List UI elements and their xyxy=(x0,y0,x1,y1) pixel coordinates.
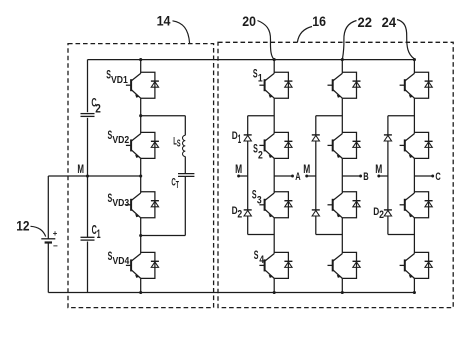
wire bottom bus xyxy=(48,292,415,294)
label D2 (leg A) xyxy=(232,205,243,221)
svg-text:S: S xyxy=(253,67,258,81)
wire left rail upper xyxy=(87,60,89,113)
svg-text:2: 2 xyxy=(258,149,263,161)
wire M terminal (leg A) xyxy=(239,175,248,177)
label S3 xyxy=(252,188,262,207)
svg-text:S: S xyxy=(252,188,257,202)
svg-text:S: S xyxy=(254,248,259,262)
svg-text:S: S xyxy=(177,139,181,150)
svg-text:M: M xyxy=(235,162,242,176)
transistor S4 xyxy=(259,254,274,279)
wire leg A segment 4 xyxy=(273,218,275,254)
node M on rail xyxy=(86,174,89,177)
label D1 xyxy=(232,130,242,146)
transistor switch 3 (leg C) xyxy=(400,193,415,218)
leader from 12 to battery xyxy=(31,226,46,236)
node bottom of leg C xyxy=(413,291,416,294)
svg-text:1: 1 xyxy=(258,73,263,85)
clamp diode D2 (leg B) xyxy=(312,209,320,211)
transistor switch 4 (leg B) xyxy=(328,254,343,279)
svg-text:1: 1 xyxy=(238,132,242,146)
transistor SVD1 xyxy=(126,73,141,98)
label C2 xyxy=(91,96,101,115)
wire CT bottom xyxy=(184,177,186,236)
wire leg C segment 2 xyxy=(413,98,415,133)
transistor SVD3 xyxy=(126,193,141,218)
antiparallel diode 3 (leg B) xyxy=(342,192,360,218)
transistor S1 xyxy=(259,73,274,98)
capacitor C1 xyxy=(81,237,95,240)
wire battery positive lead xyxy=(47,176,49,239)
svg-text:B: B xyxy=(363,171,368,183)
node: SVD3/SVD4 junction xyxy=(139,234,142,237)
wire left leg segment 5 xyxy=(140,278,142,292)
svg-text:3: 3 xyxy=(257,194,262,206)
antiparallel diode of SVD2 xyxy=(141,132,159,158)
transistor switch 2 (leg B) xyxy=(328,134,343,159)
dashed box: inverter unit 16 xyxy=(218,42,453,307)
wire leg B segment 3 xyxy=(341,158,343,193)
svg-text:2: 2 xyxy=(95,102,101,115)
svg-text:16: 16 xyxy=(312,13,326,29)
node output terminal A xyxy=(291,175,294,178)
label D2 (leg C) xyxy=(373,206,384,221)
antiparallel diode 1 (leg A) xyxy=(274,72,292,98)
inductor LS xyxy=(183,135,186,156)
node: top of left leg xyxy=(139,58,142,61)
label SVD4 xyxy=(108,249,130,267)
wire clamp top tap (leg B) xyxy=(316,115,343,117)
label S2 xyxy=(253,141,263,161)
svg-text:A: A xyxy=(295,171,300,183)
wire leg C segment 4 xyxy=(413,218,415,254)
svg-text:22: 22 xyxy=(358,14,373,30)
wire M terminal (leg B) xyxy=(307,175,316,177)
svg-text:2: 2 xyxy=(237,208,242,220)
svg-text:4: 4 xyxy=(259,254,264,266)
wire leg B segment 4 xyxy=(341,218,343,254)
capacitor C2 xyxy=(81,114,95,117)
wire output B xyxy=(342,175,360,177)
wire leg B segment 2 xyxy=(341,98,343,133)
label SVD2 xyxy=(108,128,130,146)
wire M row (battery to left leg) xyxy=(48,175,140,177)
node output terminal B xyxy=(359,175,362,178)
transistor switch 4 (leg C) xyxy=(400,254,415,279)
svg-text:M: M xyxy=(375,162,382,176)
svg-text:14: 14 xyxy=(157,12,171,28)
wire LS branch top xyxy=(141,115,186,117)
node top of leg C xyxy=(413,58,416,61)
svg-text:VD1: VD1 xyxy=(111,75,128,86)
wire output C xyxy=(414,175,432,177)
clamp diode D1 (leg A) xyxy=(244,134,252,136)
leader from 20 to leg A xyxy=(258,21,275,60)
wire clamp mid (leg B) xyxy=(315,141,317,210)
wire left rail lower xyxy=(87,242,89,293)
wire top bus xyxy=(88,59,415,61)
node top of leg A xyxy=(273,58,276,61)
transistor S2 xyxy=(259,134,274,159)
antiparallel diode 4 (leg B) xyxy=(342,252,360,278)
antiparallel diode 4 (leg A) xyxy=(274,252,292,278)
svg-text:−: − xyxy=(53,241,58,250)
wire clamp mid (leg A) xyxy=(247,141,249,210)
antiparallel diode 2 (leg C) xyxy=(414,132,432,158)
svg-text:M: M xyxy=(77,162,84,176)
wire clamp top tap (leg A) xyxy=(248,115,275,117)
antiparallel diode of SVD1 xyxy=(141,72,159,98)
svg-text:20: 20 xyxy=(242,13,256,29)
wire leg C segment 5 xyxy=(413,278,415,292)
label LS xyxy=(173,135,181,149)
transistor switch 1 (leg C) xyxy=(400,73,415,98)
node: bottom of left leg xyxy=(139,291,142,294)
label S4 xyxy=(254,248,265,266)
label SVD3 xyxy=(108,191,130,209)
antiparallel diode of SVD3 xyxy=(141,192,159,218)
wire left rail mid xyxy=(87,118,89,237)
antiparallel diode 2 (leg B) xyxy=(342,132,360,158)
battery 12 xyxy=(41,229,58,251)
svg-text:C: C xyxy=(435,171,440,183)
svg-text:VD2: VD2 xyxy=(112,135,129,146)
transistor switch 2 (leg C) xyxy=(400,134,415,159)
svg-text:VD4: VD4 xyxy=(113,256,130,267)
wire leg B segment 1 xyxy=(341,60,343,74)
clamp diode D1 (leg C) xyxy=(384,134,392,136)
wire leg C segment 3 xyxy=(413,158,415,193)
svg-text:VD3: VD3 xyxy=(112,198,129,209)
leader from 16 to box xyxy=(297,27,312,43)
label SVD1 xyxy=(106,67,128,86)
wire leg A segment 3 xyxy=(273,158,275,193)
wire leg A segment 1 xyxy=(273,60,275,74)
antiparallel diode 3 (leg C) xyxy=(414,192,432,218)
label CT xyxy=(171,177,179,192)
antiparallel diode 1 (leg B) xyxy=(342,72,360,98)
wire left leg segment 1 xyxy=(140,60,142,74)
clamp diode D2 (leg C) xyxy=(384,209,392,211)
wire clamp mid (leg C) xyxy=(387,141,389,210)
antiparallel diode 2 (leg A) xyxy=(274,132,292,158)
antiparallel diode of SVD4 xyxy=(141,252,159,278)
leader from 14 to box xyxy=(173,21,190,43)
transistor SVD4 xyxy=(126,254,141,279)
node top of leg B xyxy=(341,58,344,61)
node bottom of leg A xyxy=(273,291,276,294)
wire M terminal (leg C) xyxy=(379,175,388,177)
capacitor CT xyxy=(178,174,194,177)
wire output A xyxy=(274,175,292,177)
svg-text:12: 12 xyxy=(16,217,30,233)
node M terminal (leg C) xyxy=(377,175,380,178)
leader from 24 to leg C xyxy=(397,20,414,59)
antiparallel diode 1 (leg C) xyxy=(414,72,432,98)
transistor switch 1 (leg B) xyxy=(328,73,343,98)
wire clamp bottom (leg B) xyxy=(315,216,317,235)
transistor switch 3 (leg B) xyxy=(328,193,343,218)
svg-text:M: M xyxy=(303,162,310,176)
wire battery negative lead xyxy=(47,243,49,293)
label S1 xyxy=(253,67,263,85)
svg-text:2: 2 xyxy=(379,209,384,221)
wire clamp bottom (leg C) xyxy=(387,216,389,235)
label C1 xyxy=(92,222,101,241)
wire leg B segment 5 xyxy=(341,278,343,292)
wire leg C segment 1 xyxy=(413,60,415,74)
svg-text:T: T xyxy=(176,180,179,191)
wire left leg segment 4 xyxy=(140,218,142,254)
svg-text:+: + xyxy=(53,229,58,238)
dashed box: soft-switching unit 14 xyxy=(68,44,214,308)
node M terminal (leg B) xyxy=(305,175,308,178)
leader from 22 to leg B xyxy=(342,21,356,60)
wire leg A segment 5 xyxy=(273,278,275,292)
antiparallel diode 3 (leg A) xyxy=(274,192,292,218)
svg-text:1: 1 xyxy=(97,227,101,241)
wire clamp bottom (leg A) xyxy=(247,216,249,235)
wire LS to CT xyxy=(184,157,186,174)
node: SVD2/SVD3 junction (M) xyxy=(139,174,142,177)
antiparallel diode 4 (leg C) xyxy=(414,252,432,278)
wire clamp top tap (leg C) xyxy=(388,115,415,117)
node M terminal (leg A) xyxy=(237,175,240,178)
node bottom of leg B xyxy=(341,291,344,294)
node: SVD1/SVD2 junction xyxy=(139,114,142,117)
transistor S3 xyxy=(259,193,274,218)
wire leg A segment 2 xyxy=(273,98,275,133)
clamp diode D1 (leg B) xyxy=(312,134,320,136)
wire left leg segment 3 xyxy=(140,158,142,193)
node output terminal C xyxy=(431,175,434,178)
clamp diode D2 (leg A) xyxy=(244,209,252,211)
svg-text:24: 24 xyxy=(382,14,397,30)
wire left leg segment 2 xyxy=(140,98,142,133)
transistor SVD2 xyxy=(126,134,141,159)
